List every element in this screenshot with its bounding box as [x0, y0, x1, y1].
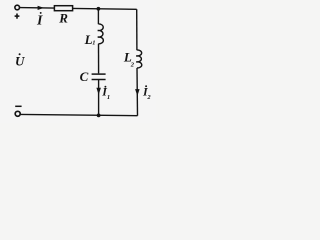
junction node (top) [97, 7, 101, 11]
wire: top right segment [73, 7, 137, 10]
wire: L1 branch upper [97, 9, 99, 24]
current arrow I1 [96, 88, 101, 95]
wire: C to bottom [98, 80, 100, 116]
svg-text:C: C [80, 69, 89, 84]
current arrow I (on top wire) [38, 6, 44, 10]
wire: bottom [21, 114, 138, 115]
svg-text:L: L [84, 32, 93, 47]
svg-text:R: R [58, 10, 68, 25]
terminal - (bottom-left) [15, 111, 20, 116]
svg-text:1: 1 [92, 40, 95, 47]
svg-text:1: 1 [107, 94, 110, 101]
resistor R [54, 6, 72, 11]
background [0, 0, 156, 123]
svg-text:U: U [15, 54, 25, 69]
wire: right side lower [136, 68, 139, 116]
minus sign [15, 105, 21, 107]
wire: right side upper [136, 9, 138, 50]
svg-text:I: I [36, 13, 43, 28]
capacitor C [92, 74, 106, 79]
svg-text:2: 2 [146, 94, 151, 101]
current arrow I2 [135, 89, 140, 96]
plus sign [15, 14, 20, 19]
wire: L1 to C segment [98, 44, 100, 74]
inductor L1 [98, 24, 104, 44]
terminal + (top-left) [15, 5, 20, 10]
inductor L2 [136, 50, 142, 68]
svg-text:2: 2 [130, 61, 135, 68]
wire: top left segment [20, 7, 55, 10]
junction node (bottom) [97, 114, 101, 118]
